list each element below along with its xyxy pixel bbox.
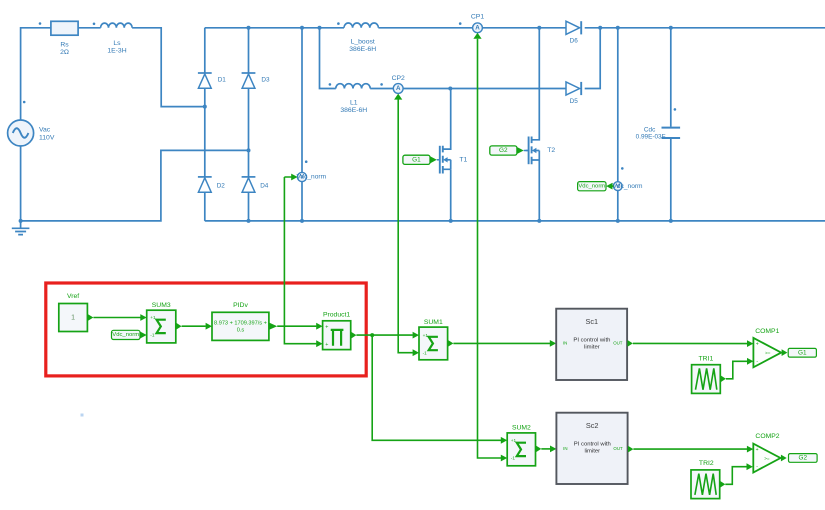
svg-text:OUT: OUT: [613, 340, 623, 345]
wire Vac_norm signal to Product1: [284, 174, 322, 348]
ammeter CP1: [459, 14, 484, 33]
svg-text:L_boost: L_boost: [351, 39, 375, 46]
summation SUM3: [147, 302, 182, 343]
svg-text:+1: +1: [511, 438, 517, 443]
svg-text:G1: G1: [798, 350, 807, 357]
svg-text:Vdc_norm: Vdc_norm: [112, 332, 139, 338]
svg-text:+1: +1: [150, 315, 156, 320]
svg-text:8.973 + 1709.397/s +: 8.973 + 1709.397/s +: [214, 321, 267, 327]
triangle generator TRI2: [691, 460, 725, 499]
svg-text:TRI2: TRI2: [699, 460, 714, 467]
svg-text:D6: D6: [570, 38, 579, 45]
transistor T2: [526, 28, 556, 221]
svg-text:Vac_norm: Vac_norm: [297, 174, 327, 181]
svg-text:G1: G1: [412, 157, 421, 164]
comparator COMP2: [753, 433, 786, 472]
svg-text:Rs: Rs: [60, 42, 69, 49]
wire CP2 signal to SUM1: [394, 94, 419, 357]
triangle generator TRI1: [692, 355, 726, 393]
svg-text:386E-6H: 386E-6H: [349, 46, 376, 53]
svg-text:SUM2: SUM2: [512, 424, 531, 431]
node T2 drain junction: [537, 26, 541, 30]
AC source Vac: [8, 101, 55, 146]
svg-text:Sc1: Sc1: [586, 317, 599, 326]
svg-text:T2: T2: [547, 147, 555, 154]
svg-text:D4: D4: [260, 183, 269, 190]
svg-text:Cdc: Cdc: [644, 126, 656, 133]
port G2 output: [789, 454, 818, 463]
node T1 drain junction: [448, 87, 452, 91]
svg-text:Product1: Product1: [323, 311, 350, 318]
svg-text:CP2: CP2: [392, 75, 405, 82]
svg-text:1E-3H: 1E-3H: [107, 47, 126, 54]
wire PIDv to Product1: [277, 323, 322, 330]
node D5 output junction: [598, 26, 602, 30]
svg-text:-1: -1: [150, 333, 155, 338]
node T2 source junction: [537, 219, 541, 223]
wire D3-D4 leg: [248, 28, 250, 221]
svg-text:G2: G2: [499, 147, 508, 154]
svg-text:T1: T1: [459, 157, 467, 164]
diode D4: [242, 177, 269, 192]
port tag Vdc_norm output: [578, 182, 614, 191]
svg-text:110V: 110V: [39, 134, 55, 141]
inductor L_boost: [337, 22, 378, 53]
wire CP1 signal to SUM2: [473, 33, 507, 462]
capacitor Cdc: [636, 26, 680, 223]
port G1 output: [788, 348, 816, 357]
svg-text:PI control with: PI control with: [574, 442, 611, 448]
wire Product1 to SUM2: [372, 335, 507, 444]
svg-text:L1: L1: [350, 100, 358, 107]
svg-text:+: +: [756, 447, 759, 453]
svg-text:>=: >=: [764, 456, 770, 461]
subsystem Sc2: [556, 413, 633, 484]
svg-text:Sc2: Sc2: [586, 421, 599, 430]
svg-text:OUT: OUT: [613, 446, 623, 451]
svg-text:D3: D3: [261, 77, 270, 84]
constant Vref: [59, 293, 94, 332]
svg-text:A: A: [475, 25, 480, 32]
voltmeter Vac_norm: [297, 26, 327, 223]
port tag Vdc_norm input: [112, 330, 147, 339]
svg-text:Ls: Ls: [113, 40, 121, 47]
wire TRI2 to COMP2: [725, 463, 753, 484]
node L1 branch top junction: [318, 26, 322, 30]
svg-text:-1: -1: [423, 350, 428, 355]
node D3 top junction: [247, 26, 251, 30]
node bridge AC right junction: [247, 148, 251, 152]
multiplier Product1: [323, 311, 357, 349]
svg-text:Vdc_norm: Vdc_norm: [578, 183, 605, 189]
node Product1 output junction: [370, 333, 374, 337]
diode D6: [566, 21, 581, 45]
wire Sc2 to COMP2: [633, 446, 753, 453]
svg-text:+: +: [756, 341, 759, 347]
svg-text:+: +: [325, 342, 328, 348]
svg-text:1: 1: [71, 314, 75, 321]
summation SUM2: [507, 424, 541, 466]
transfer function PIDv: [212, 302, 277, 340]
diode D2: [198, 177, 225, 192]
wire bottom power rail: [205, 220, 825, 222]
diode D3: [242, 73, 270, 88]
svg-text:Vref: Vref: [67, 293, 79, 300]
svg-text:PIDv: PIDv: [233, 302, 248, 309]
svg-text:0.99E-03F: 0.99E-03F: [636, 134, 666, 141]
wire inductor to bridge AC node: [132, 28, 205, 107]
resistor Rs: [39, 21, 78, 56]
wire D1-D2 leg: [204, 28, 206, 221]
red highlight rectangle: [46, 283, 366, 376]
wire Vref to SUM3: [93, 314, 146, 321]
wire AC source bottom to bridge return: [21, 146, 249, 221]
subsystem Sc1: [556, 309, 633, 380]
svg-text:limiter: limiter: [584, 344, 600, 350]
svg-text:TRI1: TRI1: [699, 355, 714, 362]
svg-text:D1: D1: [218, 77, 227, 84]
svg-text:Vdc_norm: Vdc_norm: [613, 183, 644, 190]
svg-text:G2: G2: [799, 455, 808, 462]
inductor Ls: [93, 23, 132, 55]
svg-text:A: A: [396, 85, 401, 92]
wire SUM3 to PIDv: [182, 323, 212, 330]
diode D5: [566, 82, 581, 105]
ammeter CP2: [380, 75, 405, 94]
wire TRI1 to COMP1: [726, 358, 754, 379]
stray mark: [81, 414, 84, 417]
ground: [12, 219, 30, 235]
wire resistor to inductor: [78, 27, 101, 29]
svg-text:386E-6H: 386E-6H: [340, 107, 367, 114]
svg-text:Vac: Vac: [39, 127, 51, 134]
svg-text:D5: D5: [570, 98, 579, 105]
svg-text:D2: D2: [217, 183, 226, 190]
svg-text:CP1: CP1: [471, 14, 484, 21]
comparator COMP1: [753, 328, 787, 367]
inductor L1: [329, 83, 371, 114]
svg-text:SUM1: SUM1: [424, 319, 443, 326]
wire L1 branch: [320, 28, 601, 89]
node T1 source junction: [449, 219, 453, 223]
svg-text:SUM3: SUM3: [152, 302, 171, 309]
svg-text:IN: IN: [563, 340, 567, 345]
transistor T1: [437, 89, 468, 221]
node D4 bottom junction: [247, 219, 251, 223]
summation SUM1: [419, 319, 453, 360]
svg-text:COMP1: COMP1: [755, 328, 779, 335]
svg-text:+1: +1: [423, 333, 429, 338]
wire Sc1 to COMP1: [633, 340, 754, 347]
voltmeter Vdc_norm: [613, 26, 644, 223]
wire SUM2 to Sc2: [541, 446, 556, 453]
svg-text:2Ω: 2Ω: [60, 49, 69, 56]
svg-text:0.s: 0.s: [237, 328, 245, 334]
svg-text:-1: -1: [511, 456, 516, 461]
svg-text:PI control with: PI control with: [573, 337, 610, 343]
svg-text:IN: IN: [563, 446, 567, 451]
node bridge AC left junction: [203, 105, 207, 109]
svg-text:>=: >=: [765, 351, 771, 356]
wire rectified top rail: [205, 27, 825, 29]
wire Product1 to SUM1: [356, 332, 419, 339]
svg-text:+: +: [325, 324, 328, 330]
wire AC top from source to resistor: [21, 28, 51, 120]
svg-text:COMP2: COMP2: [755, 433, 779, 440]
svg-text:limiter: limiter: [584, 449, 600, 455]
port tag G2: [490, 146, 529, 155]
wire SUM1 to Sc1: [453, 340, 556, 347]
diode D1: [198, 73, 226, 88]
port tag G1: [403, 155, 437, 164]
